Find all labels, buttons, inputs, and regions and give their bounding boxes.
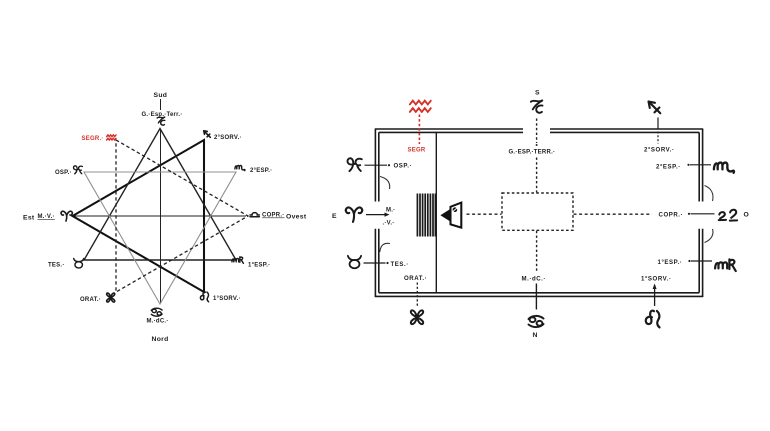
svg-text:Est: Est [23,215,35,222]
svg-text:SEGR: SEGR [408,147,426,153]
svg-text:2°ESP.·: 2°ESP.· [250,168,272,174]
gemini glyph ORAT [107,293,115,302]
virgo glyph 1ESP [232,257,243,263]
svg-text:O: O [744,212,750,219]
taurus glyph TES [74,259,84,268]
svg-text:Ovest: Ovest [286,214,307,221]
svg-text:M.·dC.·: M.·dC.· [147,319,169,325]
door swing arc left wall lower [380,243,390,252]
scorpio glyph 2ESP [235,165,245,170]
altar: trapezoid lectern [451,203,462,228]
red dashed line SEGR [418,115,420,145]
svg-text:COPR.·: COPR.· [659,211,684,218]
wire: fire triangle bold M.V-2SORV-1SORV [73,140,205,292]
svg-text:SEGR.·: SEGR.· [82,136,104,142]
svg-text:G.·ESP.·TERR.·: G.·ESP.·TERR.· [509,150,556,156]
altar: black arrowhead [440,209,450,221]
door swing arc right wall upper [705,186,713,202]
svg-text:1°ESP.·: 1°ESP.· [658,259,683,266]
capricorn glyph top centre [531,100,543,112]
wire: air triangle dashed SEGR-COPR-ORAT [116,140,248,292]
wire: water triangle OSP-2ESP-M.dC (light) [84,172,236,304]
wire: vertical Sud-Nord axis [160,99,162,303]
sagittarius arrow 2SORV [649,102,661,114]
wall: top (outer+inner) with centre door gap [375,129,703,132]
svg-text:M.·V.·: M.·V.· [38,214,55,220]
red aquarius zigzag SEGR [410,101,431,112]
svg-text:Sud: Sud [154,92,168,99]
dashed centre horizontal line [467,213,653,215]
hatched veil block [417,194,435,237]
capricorn glyph top [157,117,165,125]
svg-text:2°SORV.·: 2°SORV.· [644,147,675,154]
svg-text:N: N [533,332,538,339]
svg-text:M.·dC.·: M.·dC.· [522,276,547,283]
svg-text:ORAT.·: ORAT.· [404,275,427,282]
svg-text:TES.·: TES.· [391,261,409,268]
pisces glyph OSP [347,158,361,171]
libra glyph COPR [250,213,259,217]
door swing arc right wall lower [705,229,713,243]
svg-text:1°SORV.·: 1°SORV.· [641,276,672,283]
svg-text:2°SORV.·: 2°SORV.· [214,135,242,141]
svg-text:ORAT.·: ORAT.· [80,297,101,303]
door swing arc left wall upper [380,177,390,190]
svg-text:2°ESP.·: 2°ESP.· [656,163,681,170]
svg-text:Nord: Nord [152,336,169,343]
pisces glyph OSP [74,166,83,174]
svg-text:OSP.·: OSP.· [394,163,413,170]
svg-text:1°ESP.·: 1°ESP.· [248,263,270,269]
svg-text:OSP.·: OSP.· [55,170,72,176]
wall: bottom (outer+inner) [375,293,703,297]
svg-text:TES.·: TES.· [48,263,65,269]
wall: right (outer+inner) with COPR door gap [699,129,702,297]
wall: left (outer+inner) with Est door gap [375,129,378,297]
svg-text:M.·: M.· [386,208,395,214]
svg-text:.·V.·: .·V.· [383,221,395,227]
dashed tracing-board rectangle [502,193,573,230]
wire: earth triangle G.Esp.Terr-1ESP-TES [84,129,236,261]
sagittarius arrow 2SORV [204,131,211,138]
svg-text:S: S [535,89,540,96]
svg-text:E: E [332,213,337,220]
cancer glyph M.dC [151,308,162,316]
leo glyph 1SORV [200,292,208,302]
aquarius glyph SEGR (red) [107,135,116,140]
altar: small circle glyph [453,207,458,212]
wire: horizontal Est-Ovest axis [74,215,246,217]
aries glyph M.V [61,211,72,221]
wall: inner partition [435,132,437,292]
svg-text:1°SORV.·: 1°SORV.· [213,296,241,302]
taurus glyph TES [348,256,361,268]
svg-text:COPR.·: COPR.· [262,213,285,219]
dashed centre vertical line [536,119,538,272]
